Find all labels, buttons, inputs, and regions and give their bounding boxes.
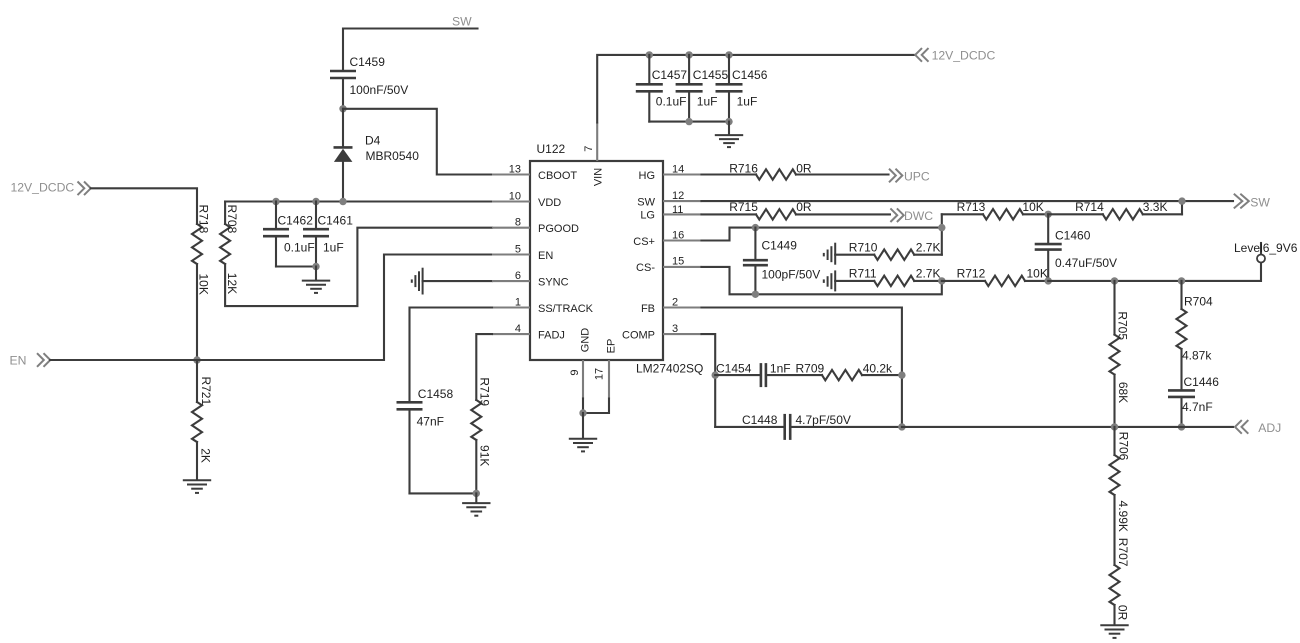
node C1456 top junction — [725, 51, 732, 58]
svg-text:SS/TRACK: SS/TRACK — [538, 303, 594, 315]
pin 1 SS/TRACK — [492, 296, 594, 315]
svg-text:R719: R719 — [478, 377, 492, 406]
svg-text:3: 3 — [672, 323, 678, 335]
node SW line junction — [1178, 197, 1185, 204]
wire to ground stem — [728, 122, 730, 135]
svg-text:R718: R718 — [197, 205, 211, 234]
svg-text:VDD: VDD — [538, 197, 561, 209]
capacitor C1462 — [263, 202, 315, 267]
svg-text:1uF: 1uF — [737, 94, 758, 108]
wire GND pin 9 down — [582, 399, 584, 414]
svg-text:PGOOD: PGOOD — [538, 223, 579, 235]
wire R714 up to SW line — [1181, 201, 1183, 214]
node CS+ junction — [938, 224, 945, 231]
svg-text:C1455: C1455 — [693, 68, 729, 82]
svg-text:CS+: CS+ — [633, 236, 655, 248]
svg-text:C1459: C1459 — [350, 55, 386, 69]
svg-text:9: 9 — [569, 369, 581, 375]
svg-text:C1454: C1454 — [716, 361, 752, 375]
svg-text:12V_DCDC: 12V_DCDC — [11, 181, 75, 195]
svg-text:R708: R708 — [225, 205, 239, 234]
svg-text:R710: R710 — [849, 241, 878, 255]
svg-text:C1456: C1456 — [732, 68, 768, 82]
wire R718 to EN rail — [196, 264, 198, 360]
svg-text:R704: R704 — [1184, 295, 1213, 309]
pin 5 EN — [492, 243, 553, 261]
svg-text:2.7K: 2.7K — [916, 267, 941, 281]
node COMP/C1454 junction — [712, 371, 719, 378]
resistor R713 10K — [942, 200, 1048, 219]
svg-text:15: 15 — [672, 256, 684, 268]
svg-text:12: 12 — [672, 190, 684, 202]
svg-text:0.1uF: 0.1uF — [284, 241, 315, 255]
wire R708 to PGOOD pin 8 — [225, 228, 492, 306]
svg-text:U122: U122 — [537, 142, 566, 156]
node R709/FB junction — [898, 371, 905, 378]
svg-text:UPC: UPC — [904, 169, 930, 183]
svg-text:4.99K: 4.99K — [1116, 501, 1130, 532]
capacitor C1460 — [1035, 214, 1117, 281]
svg-text:47nF: 47nF — [417, 414, 444, 428]
port SW (right) — [1234, 194, 1271, 210]
svg-text:2K: 2K — [199, 448, 213, 463]
svg-text:MBR0540: MBR0540 — [366, 149, 420, 163]
pin 10 VDD — [492, 190, 561, 209]
pin 9 GND (bottom) — [569, 328, 591, 399]
wire VDD rail — [225, 200, 492, 202]
port UPC — [889, 169, 930, 184]
svg-text:13: 13 — [509, 163, 521, 175]
port 12V_DCDC (top right) — [915, 48, 995, 62]
svg-text:GND: GND — [580, 328, 592, 353]
resistor R708 — [220, 202, 239, 295]
pin 6 SYNC — [492, 270, 569, 289]
svg-text:R706: R706 — [1117, 432, 1131, 461]
wire EP pin 17 down to GND — [583, 399, 609, 414]
node EN rail junction — [193, 356, 200, 363]
svg-text:R721: R721 — [199, 376, 213, 405]
svg-text:C1462: C1462 — [278, 214, 314, 228]
pin 2 FB — [641, 296, 702, 315]
node R706 top junction — [1111, 423, 1118, 430]
svg-text:FB: FB — [641, 303, 655, 315]
svg-text:R715: R715 — [729, 200, 758, 214]
net label SW (top) — [452, 15, 472, 29]
wire CS- pin 15 detour — [702, 267, 942, 294]
svg-text:Level6_9V6: Level6_9V6 — [1234, 241, 1298, 255]
node R705 top junction — [1111, 277, 1118, 284]
node CS- / R712 junction — [938, 277, 945, 284]
ground at R710 (rotated) — [824, 243, 835, 265]
node C1462 top junction — [272, 198, 279, 205]
svg-text:10: 10 — [509, 190, 521, 202]
pin 14 HG — [639, 163, 702, 182]
svg-text:D4: D4 — [365, 134, 381, 148]
wire C1459 to junction — [342, 79, 344, 109]
svg-text:40.2k: 40.2k — [863, 361, 893, 375]
svg-text:5: 5 — [515, 243, 521, 255]
wire VIN rail from pin 7 — [597, 55, 915, 123]
ground below R721 — [183, 480, 211, 493]
resistor R706 4.99K — [1110, 427, 1131, 565]
wire junction to CBOOT pin 13 — [343, 109, 492, 175]
capacitor C1454 — [715, 361, 790, 387]
wire to ground stem — [315, 267, 317, 280]
resistor R721 — [192, 360, 213, 480]
svg-text:CBOOT: CBOOT — [538, 170, 577, 182]
capacitor C1449 — [743, 228, 820, 295]
resistor R709 40.2k — [767, 361, 902, 380]
svg-text:8: 8 — [515, 217, 521, 229]
node CBOOT branch junction — [339, 105, 346, 112]
wire to ground stem — [582, 413, 584, 438]
wire SW net horizontal — [343, 29, 478, 70]
svg-text:0R: 0R — [796, 161, 812, 175]
svg-text:1nF: 1nF — [770, 361, 791, 375]
svg-text:EP: EP — [606, 339, 618, 354]
ground below R707 — [1100, 625, 1128, 638]
resistor R707 0R — [1110, 538, 1131, 625]
pin 13 CBOOT — [492, 163, 577, 182]
wire 12V_DCDC to R718 — [91, 188, 197, 224]
node D4 anode junction on VDD rail — [339, 198, 346, 205]
wire LG to R715 — [702, 213, 757, 215]
wire R715 to DWC — [796, 213, 890, 215]
wire CS+ pin 16 to sense line — [702, 228, 942, 241]
wire bypass caps bottom rail — [649, 121, 729, 123]
diode D4 MBR0540 — [334, 134, 420, 164]
resistor R704 4.87k — [1177, 281, 1214, 389]
node C1455 bottom junction — [685, 118, 692, 125]
svg-text:4.7pF/50V: 4.7pF/50V — [796, 413, 851, 427]
svg-text:10K: 10K — [1027, 267, 1048, 281]
wire R716 to UPC — [796, 173, 889, 175]
svg-text:3.3K: 3.3K — [1143, 200, 1168, 214]
svg-text:4.7nF: 4.7nF — [1182, 400, 1213, 414]
svg-text:6: 6 — [515, 270, 521, 282]
svg-text:R714: R714 — [1075, 200, 1104, 214]
svg-text:7: 7 — [583, 146, 595, 152]
wire junction to D4 cathode — [342, 109, 344, 147]
svg-text:C1446: C1446 — [1184, 375, 1220, 389]
resistor R714 3.3K — [1048, 200, 1182, 219]
svg-text:R716: R716 — [729, 161, 758, 175]
node Level6_9V6 terminal — [1234, 241, 1298, 263]
pin 4 FADJ — [492, 323, 565, 342]
port ADJ — [1235, 420, 1281, 435]
pin 15 CS- — [636, 256, 701, 275]
capacitor C1458 — [397, 387, 454, 493]
pin 7 VIN (top) — [583, 123, 605, 187]
svg-text:0.1uF: 0.1uF — [656, 94, 687, 108]
svg-text:100pF/50V: 100pF/50V — [762, 267, 821, 281]
node C1461 top junction — [312, 198, 319, 205]
wire SYNC pin 6 — [423, 280, 492, 282]
pin 12 SW — [637, 190, 701, 209]
svg-text:1uF: 1uF — [323, 241, 344, 255]
capacitor C1455 — [676, 55, 729, 122]
svg-text:1uF: 1uF — [697, 94, 718, 108]
ground below C1461 — [302, 281, 330, 293]
pin 11 LG — [640, 204, 701, 222]
svg-text:LG: LG — [640, 210, 655, 222]
wire FB pin 2 — [702, 308, 902, 427]
wire HG to R716 — [702, 173, 757, 175]
svg-text:SW: SW — [637, 196, 655, 208]
ground at SYNC (rotated) — [412, 268, 423, 295]
pin 3 COMP — [622, 323, 702, 342]
pin 16 CS+ — [633, 229, 701, 248]
svg-text:SYNC: SYNC — [538, 276, 569, 288]
ground below GND/EP — [569, 439, 597, 452]
svg-text:10K: 10K — [1022, 200, 1043, 214]
resistor R715 0R — [729, 200, 812, 220]
svg-text:DWC: DWC — [904, 209, 933, 223]
pin 17 EP (bottom) — [594, 339, 618, 399]
svg-text:12K: 12K — [225, 273, 239, 294]
capacitor C1461 — [303, 202, 353, 267]
wire C1458 bottom to R719 bottom — [410, 492, 477, 494]
svg-text:100nF/50V: 100nF/50V — [350, 83, 409, 97]
svg-text:CS-: CS- — [636, 262, 655, 274]
svg-text:12V_DCDC: 12V_DCDC — [932, 48, 996, 62]
resistor R712 10K — [942, 267, 1048, 286]
svg-text:R713: R713 — [957, 200, 986, 214]
port 12V_DCDC (left) — [11, 181, 91, 196]
node R704 top junction — [1178, 277, 1185, 284]
svg-text:10K: 10K — [197, 274, 211, 295]
svg-text:68K: 68K — [1116, 382, 1130, 403]
resistor R711 2.7K — [835, 267, 942, 286]
svg-text:4: 4 — [515, 323, 521, 335]
svg-text:0R: 0R — [1116, 605, 1130, 621]
svg-text:EN: EN — [538, 250, 553, 262]
resistor R719 91K — [471, 377, 491, 493]
resistor R716 0R — [729, 161, 812, 179]
svg-text:R705: R705 — [1116, 311, 1130, 340]
wire SS/TRACK pin 1 to C1458 — [410, 308, 493, 401]
svg-text:R709: R709 — [796, 361, 825, 375]
svg-text:C1461: C1461 — [318, 214, 354, 228]
wire COMP pin 3 — [702, 334, 716, 427]
wire ADJ rail — [902, 426, 1233, 428]
wire D4 anode to VDD rail — [342, 162, 344, 202]
port DWC — [890, 208, 933, 223]
svg-text:91K: 91K — [477, 445, 491, 466]
svg-text:SW: SW — [452, 15, 472, 29]
capacitor C1456 — [716, 55, 768, 122]
node FB/ADJ rail junction — [898, 423, 905, 430]
svg-text:COMP: COMP — [622, 329, 655, 341]
svg-text:2.7K: 2.7K — [916, 241, 941, 255]
svg-text:17: 17 — [594, 368, 606, 380]
node C1455 top junction — [685, 51, 692, 58]
node GND/EP junction — [579, 409, 586, 416]
svg-text:0.47uF/50V: 0.47uF/50V — [1055, 256, 1117, 270]
node C1461 bottom junction — [312, 263, 319, 270]
node C1457 top junction — [646, 51, 653, 58]
svg-text:FADJ: FADJ — [538, 329, 565, 341]
node C1449 top junction — [752, 224, 759, 231]
node C1456 bottom junction — [725, 118, 732, 125]
resistor R718 — [192, 205, 211, 295]
wire EN to pin 5 — [50, 255, 492, 361]
wire feedback rail to Level6_9V6 — [1048, 263, 1261, 281]
capacitor C1459 — [330, 55, 408, 97]
svg-text:R711: R711 — [849, 267, 877, 281]
node C1449 bottom junction — [752, 291, 759, 298]
svg-text:C1458: C1458 — [418, 387, 454, 401]
svg-text:C1448: C1448 — [742, 413, 778, 427]
node R713/R714/C1460 junction — [1045, 211, 1052, 218]
node C1446 bottom junction — [1178, 423, 1185, 430]
svg-text:VIN: VIN — [593, 168, 605, 186]
svg-text:C1460: C1460 — [1055, 229, 1091, 243]
capacitor C1446 — [1168, 375, 1219, 427]
port EN (left) — [10, 353, 51, 367]
svg-text:2: 2 — [672, 296, 678, 308]
svg-text:16: 16 — [672, 229, 684, 241]
svg-text:C1449: C1449 — [762, 239, 798, 253]
svg-text:ADJ: ADJ — [1258, 421, 1281, 435]
svg-text:EN: EN — [10, 354, 27, 368]
svg-text:R707: R707 — [1116, 538, 1130, 567]
resistor R710 2.7K — [835, 241, 942, 260]
node C1458/R719 junction — [473, 490, 480, 497]
svg-text:R712: R712 — [957, 267, 986, 281]
svg-text:HG: HG — [639, 170, 656, 182]
ground below R719 — [462, 503, 490, 516]
resistor R705 68K — [1110, 281, 1131, 427]
svg-text:SW: SW — [1250, 196, 1270, 210]
svg-text:1: 1 — [515, 296, 521, 308]
svg-text:C1457: C1457 — [652, 68, 688, 82]
ground at R711 (rotated) — [824, 270, 835, 291]
capacitor C1448 — [715, 413, 902, 440]
svg-text:11: 11 — [672, 204, 683, 216]
svg-text:LM27402SQ: LM27402SQ — [636, 362, 703, 376]
svg-text:4.87k: 4.87k — [1182, 349, 1212, 363]
svg-text:14: 14 — [672, 163, 684, 175]
wire FADJ pin 4 to R719 — [476, 334, 492, 400]
op-amp U122 LM27402SQ body — [530, 142, 703, 376]
capacitor C1457 — [636, 55, 688, 122]
wire C1462 bottom to C1461 bottom — [276, 265, 316, 267]
svg-text:0R: 0R — [796, 200, 812, 214]
wire to ground stem — [475, 493, 477, 502]
pin 8 PGOOD — [492, 217, 579, 236]
node C1460 bottom junction — [1045, 277, 1052, 284]
wire R710 right lead up to R713 corner — [941, 214, 943, 254]
ground below C1456 — [715, 135, 743, 147]
wire SW net to right port — [702, 200, 1234, 202]
